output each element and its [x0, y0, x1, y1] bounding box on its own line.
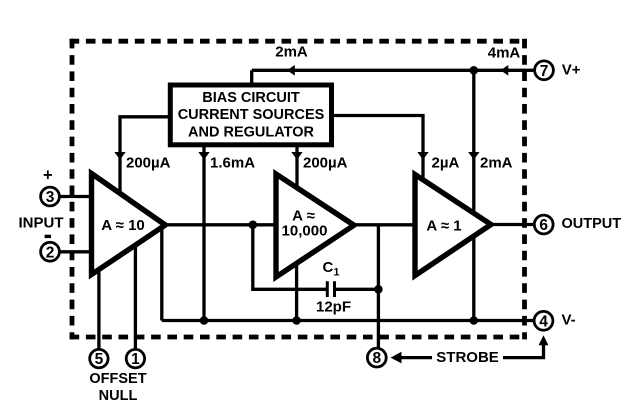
wire: amp1 bottom to offset null pin 1: [134, 240, 137, 350]
svg-text:200µA: 200µA: [126, 155, 171, 172]
junction node C1/strobe: [374, 285, 383, 294]
wire: amp2 bottom to V- bus: [295, 260, 298, 321]
svg-text:10,000: 10,000: [282, 223, 328, 240]
wire: pin 3 lead to amp1: [60, 195, 93, 198]
wire: branch from amp2 output down to pin 8: [377, 225, 380, 348]
pin 6: [534, 215, 553, 234]
IC package dashed boundary top: [70, 39, 527, 44]
wire: amp1 bottom to offset null pin 5: [97, 264, 100, 350]
svg-text:1.6mA: 1.6mA: [210, 155, 255, 172]
svg-text:NULL: NULL: [99, 388, 138, 404]
pin 4: [534, 311, 553, 330]
pin 5: [90, 349, 108, 367]
bias circuit block: [170, 85, 331, 145]
current arrow 2uA: [417, 152, 428, 160]
wire: strobe left segment: [401, 356, 433, 359]
capacitor C1 plates: [327, 281, 334, 297]
current arrow top 2mA (left): [287, 65, 295, 76]
svg-text:12pF: 12pF: [316, 298, 351, 315]
op-amp A2 gain stage triangle: [276, 174, 354, 277]
wire: amp3 output to pin 6: [489, 223, 534, 226]
pin 8: [367, 348, 386, 367]
wire: C1 right plate to strobe branch: [336, 288, 379, 291]
wire: bias box left stub to amp1 (200uA source): [120, 117, 170, 198]
svg-text:V+: V+: [562, 62, 581, 79]
pin 3: [41, 187, 60, 206]
svg-text:8: 8: [372, 350, 381, 367]
svg-text:6: 6: [539, 217, 548, 234]
wire: 2mA drop from V+ node to amp3 top: [472, 70, 475, 218]
svg-text:4mA: 4mA: [488, 44, 521, 61]
op-amp A1 input stage triangle: [92, 174, 166, 275]
wire: amp1 output to amp2 input: [163, 223, 277, 226]
current arrow 2mA output stage: [468, 152, 479, 160]
svg-text:2mA: 2mA: [275, 44, 308, 61]
svg-text:AND REGULATOR: AND REGULATOR: [188, 124, 314, 140]
wire: amp3 bottom to V- bus: [472, 232, 475, 321]
wire: 200uA stub from bias box bottom to amp2: [295, 144, 298, 192]
pin 2: [41, 242, 60, 261]
IC package dashed boundary bottom: [70, 335, 527, 340]
strobe arrow up into pin 4: [539, 335, 549, 345]
wire: drop from amp1 output to V- bus: [160, 225, 163, 321]
junction node bus amp2: [292, 316, 301, 325]
strobe arrow left into pin 8: [391, 352, 402, 364]
wire: amp2 output to amp3 input: [350, 223, 415, 226]
junction node V+ rail: [470, 66, 479, 75]
svg-text:2: 2: [46, 244, 55, 261]
svg-text:BIAS CIRCUIT: BIAS CIRCUIT: [202, 90, 300, 106]
svg-text:2µA: 2µA: [432, 155, 460, 172]
current arrow 200uA stage2: [291, 152, 302, 160]
op-amp A3 output stage triangle: [415, 175, 491, 276]
svg-text:STROBE: STROBE: [436, 349, 499, 366]
current arrow 4mA (left): [501, 65, 509, 76]
junction node feedback tap: [249, 221, 258, 230]
label - (inverting): [45, 235, 51, 238]
svg-text:CURRENT SOURCES: CURRENT SOURCES: [178, 107, 325, 123]
svg-text:OFFSET: OFFSET: [89, 371, 146, 387]
IC package dashed boundary left: [70, 39, 75, 340]
svg-text:A ≈ 10: A ≈ 10: [101, 217, 145, 234]
junction node bus 1.6mA: [200, 316, 209, 325]
wire: bias box top stub: [250, 70, 253, 86]
wire: top 2mA feed from V+ node to bias box: [252, 69, 474, 72]
wire: 1.6mA stub from bias box bottom to V- bus: [202, 144, 205, 321]
svg-text:3: 3: [46, 189, 55, 206]
wire: bias box right stub to amp3 (2uA source): [332, 116, 424, 184]
svg-text:5: 5: [95, 351, 104, 368]
svg-text:2mA: 2mA: [480, 155, 513, 172]
wire: strobe vertical under pin 4: [503, 344, 544, 358]
wire: V+ pin 7 lead: [474, 69, 535, 72]
svg-text:1: 1: [131, 351, 140, 368]
svg-text:7: 7: [540, 63, 549, 80]
svg-text:OUTPUT: OUTPUT: [562, 216, 622, 232]
svg-text:4: 4: [539, 313, 548, 330]
svg-text:A ≈ 1: A ≈ 1: [426, 218, 461, 235]
junction node bus 2mA: [470, 316, 479, 325]
wire: feedback from node to C1 left plate: [253, 225, 326, 289]
pin 1: [126, 349, 144, 367]
pin 7: [535, 61, 554, 80]
svg-text:+: +: [43, 166, 53, 184]
svg-text:INPUT: INPUT: [19, 215, 64, 232]
svg-text:200µA: 200µA: [303, 155, 348, 172]
IC package dashed boundary right: [522, 39, 527, 340]
wire: pin 2 lead to amp1: [60, 250, 93, 253]
svg-text:V-: V-: [562, 312, 576, 329]
current arrow 200uA stage1: [114, 152, 125, 160]
current arrow 1.6mA: [198, 152, 209, 160]
wire: V- bus: [162, 319, 534, 322]
